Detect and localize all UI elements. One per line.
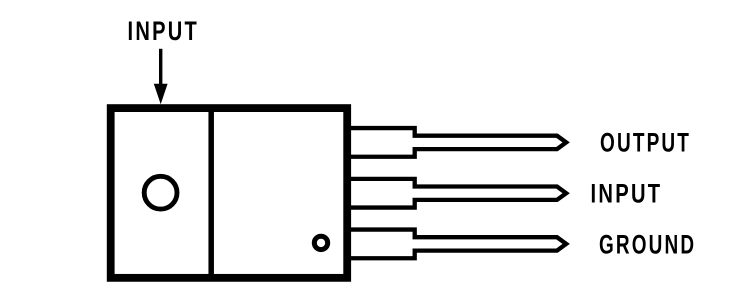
package body (TO-220 front view) xyxy=(111,108,348,278)
input arrow shaft xyxy=(159,49,162,87)
label INPUT (top) xyxy=(128,16,200,45)
label GROUND xyxy=(599,229,696,259)
svg-text:INPUT: INPUT xyxy=(591,179,663,208)
input arrowhead xyxy=(154,84,168,104)
label INPUT (right) xyxy=(591,179,663,208)
svg-text:OUTPUT: OUTPUT xyxy=(600,127,691,157)
svg-text:GROUND: GROUND xyxy=(599,229,696,259)
svg-text:INPUT: INPUT xyxy=(128,16,200,45)
mounting hole xyxy=(144,176,177,209)
pin 2 INPUT lead xyxy=(348,179,566,208)
pin 1 indicator dot xyxy=(314,236,327,249)
label OUTPUT xyxy=(600,127,691,157)
pin 1 OUTPUT lead xyxy=(348,128,566,157)
tab divider line xyxy=(208,106,214,280)
pin 3 GROUND lead xyxy=(348,230,566,259)
